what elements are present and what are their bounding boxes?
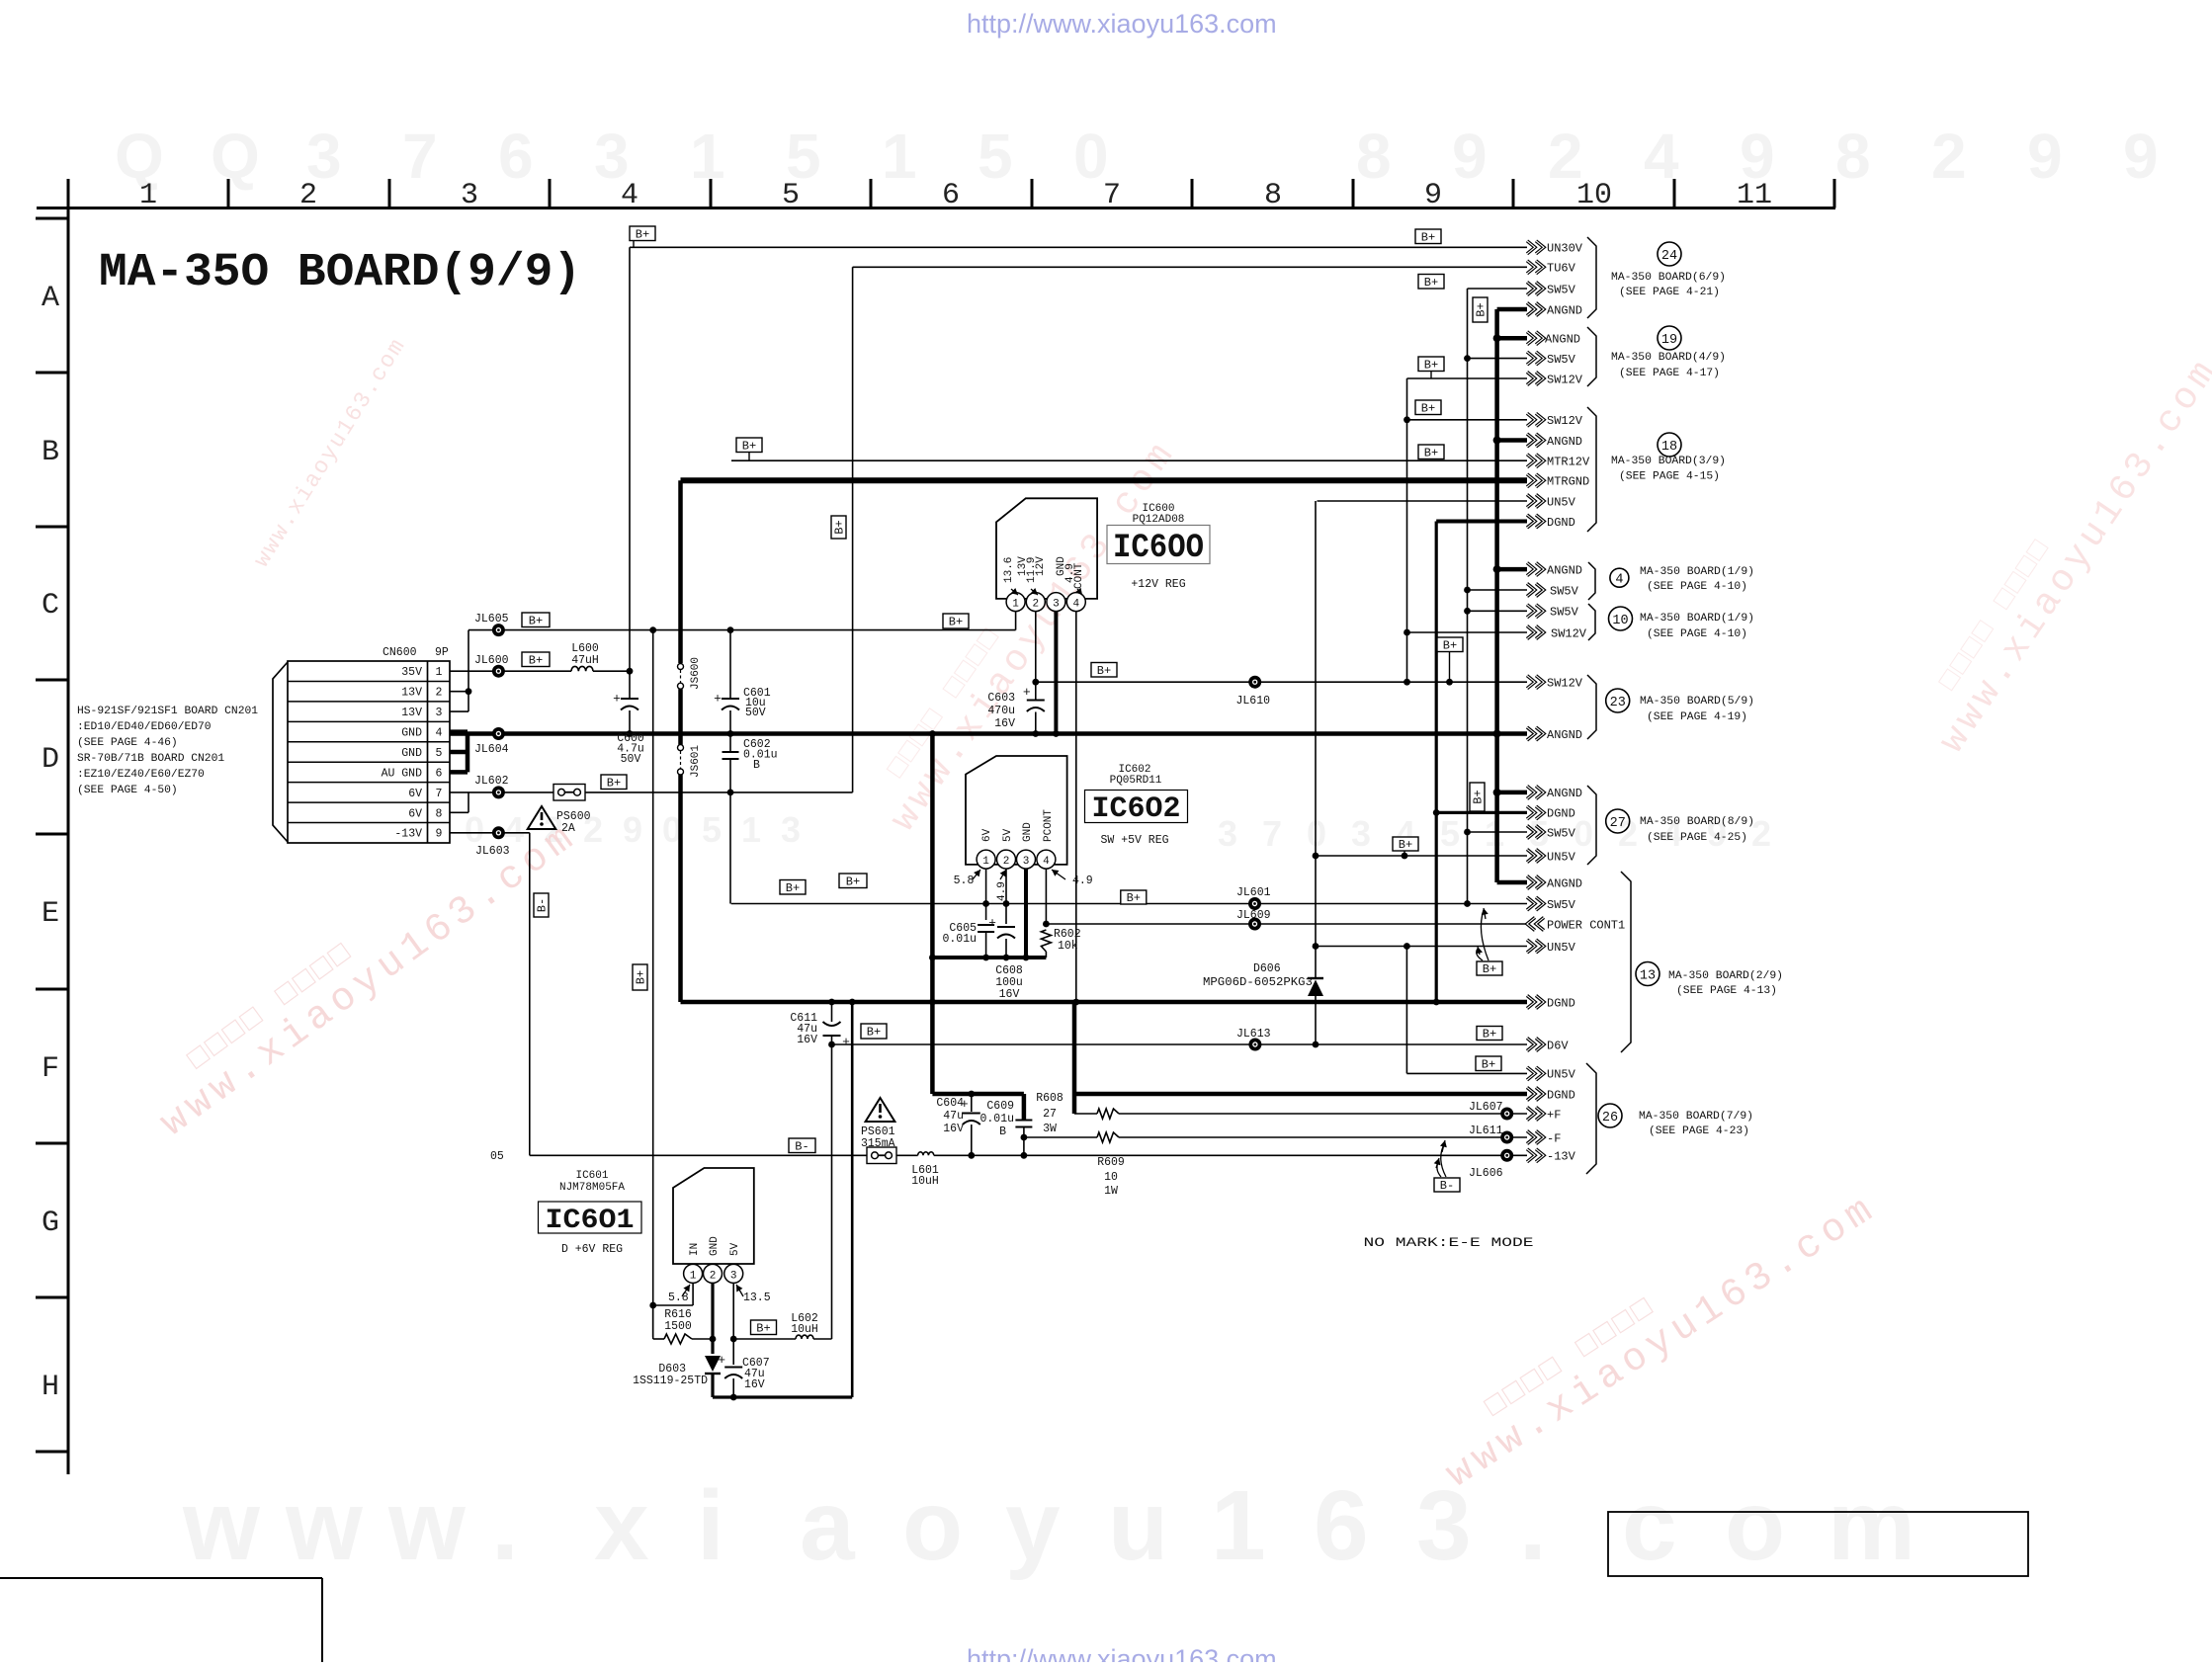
svg-text:ANGND: ANGND	[1547, 728, 1582, 742]
svg-text:B+: B+	[607, 776, 621, 790]
svg-text:MA-350 BOARD(1/9): MA-350 BOARD(1/9)	[1640, 566, 1754, 578]
wire vertical from JL605 line to IC601 input	[652, 630, 654, 1337]
svg-text:9: 9	[2123, 121, 2159, 192]
wire IC602 pin3 GND (thick)	[1024, 869, 1028, 958]
wire POWER CONT1 / JL609 line	[1046, 923, 1527, 925]
svg-text:c: c	[1622, 1470, 1677, 1581]
svg-text:u: u	[1108, 1470, 1168, 1581]
svg-text:D6V: D6V	[1547, 1039, 1569, 1052]
svg-text:12V: 12V	[1035, 556, 1047, 576]
svg-text:19: 19	[1661, 333, 1677, 348]
svg-text:(SEE PAGE 4-25): (SEE PAGE 4-25)	[1647, 832, 1747, 844]
svg-text:C603: C603	[987, 692, 1015, 705]
svg-text:DGND: DGND	[1547, 516, 1575, 530]
wire SW5V 19	[1468, 358, 1528, 360]
label B+ rotated on TU6V trunk	[831, 516, 846, 539]
label B- box on -13V line	[789, 1138, 815, 1153]
svg-text:1: 1	[1211, 1470, 1266, 1581]
svg-text:(SEE PAGE 4-19): (SEE PAGE 4-19)	[1647, 711, 1747, 723]
bracket group 26	[1586, 1063, 1596, 1174]
svg-text:16V: 16V	[744, 1378, 765, 1391]
svg-text:35V: 35V	[401, 666, 422, 679]
svg-text:B: B	[753, 759, 760, 772]
svg-text:http://www.xiaoyu163.com: http://www.xiaoyu163.com	[967, 1644, 1277, 1662]
bottom left box	[0, 1577, 322, 1579]
svg-text:05: 05	[490, 1150, 504, 1163]
label B+ box above JL610 right	[1437, 637, 1463, 652]
svg-text:B+: B+	[1424, 276, 1438, 290]
svg-text:B+: B+	[635, 970, 648, 984]
capacitor C602	[729, 734, 731, 753]
svg-text:+: +	[718, 1353, 725, 1368]
svg-text:6V: 6V	[408, 807, 422, 820]
wire ANGND 23 = GND trunk (thick)	[450, 731, 1527, 736]
svg-text:ANGND: ANGND	[1547, 787, 1582, 800]
svg-text:http://www.xiaoyu163.com: http://www.xiaoyu163.com	[967, 9, 1277, 39]
border row letters A-H	[42, 282, 59, 1404]
bracket group 4	[1588, 562, 1595, 600]
svg-text:9: 9	[2027, 121, 2063, 192]
bracket group 10	[1588, 604, 1595, 640]
node JL600 pad	[492, 665, 505, 678]
svg-text:0.01u: 0.01u	[942, 933, 977, 946]
node SW5V arrow 4	[1527, 584, 1544, 597]
wire IC601 bottom rail (thick)	[713, 1395, 852, 1398]
svg-text:MA-350 BOARD(8/9): MA-350 BOARD(8/9)	[1640, 816, 1754, 828]
svg-text:GND: GND	[401, 747, 422, 760]
svg-text:MPG06D-6052PKG3: MPG06D-6052PKG3	[1203, 976, 1313, 989]
svg-text:JS601: JS601	[690, 745, 702, 778]
node DGND arrow 26	[1527, 1088, 1544, 1101]
node SW5V arrow 13	[1527, 897, 1544, 910]
svg-text:10uH: 10uH	[911, 1175, 939, 1188]
bottom right box	[1608, 1512, 2028, 1576]
svg-text:(SEE PAGE 4-46): (SEE PAGE 4-46)	[77, 737, 178, 749]
wire ANGND trunk vertical (thick)	[1494, 309, 1499, 882]
svg-text:1: 1	[690, 1270, 697, 1282]
node SW12V arrow 18	[1527, 413, 1544, 426]
svg-text:B+: B+	[867, 1026, 881, 1040]
svg-text:315mA: 315mA	[861, 1137, 895, 1150]
wire SW12V 18	[1407, 419, 1528, 421]
border column ticks	[68, 179, 1834, 208]
svg-text:MA-35O BOARD(9/9): MA-35O BOARD(9/9)	[99, 247, 581, 299]
svg-text:2: 2	[1931, 121, 1967, 192]
svg-text:(SEE PAGE 4-15): (SEE PAGE 4-15)	[1619, 471, 1720, 483]
svg-text:ANGND: ANGND	[1545, 333, 1580, 347]
wire +F line	[1119, 1113, 1527, 1115]
svg-text:16V: 16V	[999, 988, 1020, 1001]
border left vertical line	[67, 185, 70, 1474]
wire pins2-3 bracket	[450, 691, 468, 693]
svg-text:6: 6	[1314, 1470, 1369, 1581]
svg-text:SW5V: SW5V	[1547, 898, 1576, 912]
svg-text:UN30V: UN30V	[1547, 242, 1583, 256]
fuse PS600	[553, 785, 585, 801]
wire ANGND 13 (thick)	[1497, 880, 1527, 885]
wire SW5V 13 / JL601 B+ line	[731, 903, 1527, 905]
node POWER CONT1 arrow	[1527, 918, 1544, 931]
svg-text:0: 0	[465, 809, 484, 850]
svg-text:1W: 1W	[1104, 1185, 1118, 1198]
node circled 26	[1598, 1104, 1622, 1127]
wire -F line	[1024, 1136, 1097, 1138]
svg-text:CONT: CONT	[1073, 562, 1085, 589]
svg-text:1500: 1500	[664, 1320, 692, 1333]
wire UN5V vertical (B+/D606 column)	[1315, 501, 1317, 978]
svg-text:13.6: 13.6	[1003, 557, 1015, 583]
svg-text:R608: R608	[1036, 1092, 1063, 1105]
resistor R609	[1097, 1132, 1119, 1142]
svg-text:NO MARK:E-E MODE: NO MARK:E-E MODE	[1364, 1236, 1534, 1250]
svg-text:3: 3	[730, 1270, 737, 1282]
svg-text:GND: GND	[1022, 822, 1034, 842]
node MTRGND arrow	[1527, 474, 1544, 487]
node ANGND arrow 4	[1527, 563, 1544, 576]
capacitor C608	[997, 926, 1015, 928]
svg-text:JL600: JL600	[474, 654, 509, 667]
svg-text:SW5V: SW5V	[1550, 584, 1579, 598]
svg-text:NJM78M05FA: NJM78M05FA	[559, 1182, 625, 1194]
svg-text:2: 2	[710, 1270, 717, 1282]
svg-text:9: 9	[1424, 179, 1442, 212]
svg-text:8: 8	[1835, 121, 1871, 192]
svg-text:1: 1	[1012, 599, 1019, 611]
svg-text:0.01u: 0.01u	[743, 749, 778, 762]
svg-text:5: 5	[702, 809, 722, 850]
node circled 24	[1658, 242, 1681, 266]
capacitor C604	[971, 1094, 973, 1112]
svg-text:B+: B+	[1421, 401, 1435, 415]
node JL602 pad	[492, 786, 505, 798]
node UN5V arrow 13	[1527, 940, 1544, 953]
svg-text:D: D	[42, 743, 59, 777]
svg-text:10k: 10k	[1058, 940, 1078, 953]
label B+ floating mid	[839, 874, 867, 888]
svg-text:B-: B-	[536, 898, 550, 912]
svg-text:26: 26	[1602, 1111, 1618, 1125]
border ruler top line	[37, 207, 1835, 209]
label B+ rotated near IC601 input	[633, 964, 647, 990]
node SW12V arrow 10	[1527, 626, 1544, 639]
svg-text:470u: 470u	[987, 705, 1015, 717]
svg-text:JL603: JL603	[475, 845, 510, 858]
svg-text:IC6OO: IC6OO	[1113, 530, 1204, 567]
svg-text:5.8: 5.8	[954, 875, 975, 887]
svg-text:w: w	[182, 1470, 260, 1581]
node circled 23	[1606, 689, 1630, 712]
svg-text:5: 5	[782, 179, 800, 212]
svg-text:+: +	[988, 916, 996, 931]
node ANGND arrow 19	[1527, 332, 1544, 345]
svg-text:POWER CONT1: POWER CONT1	[1547, 918, 1625, 932]
wire ANGND 19 (thick)	[1497, 336, 1527, 341]
svg-text:2: 2	[1751, 813, 1771, 854]
label B+ box MTR12V right	[1418, 445, 1444, 459]
svg-text:ANGND: ANGND	[1547, 435, 1582, 449]
watermark faint digits middle rows	[465, 809, 1771, 854]
svg-text:IC6O2: IC6O2	[1092, 792, 1181, 826]
svg-text:4: 4	[1615, 573, 1623, 588]
svg-text:B: B	[999, 1125, 1006, 1138]
pin 1 IC601	[684, 1264, 703, 1283]
wire IC600 pin1 to JL605 line	[1015, 612, 1017, 630]
svg-text:ANGND: ANGND	[1547, 563, 1582, 577]
label IC602 big box	[1085, 791, 1188, 823]
svg-text:.: .	[491, 1470, 519, 1581]
svg-text:(SEE PAGE 4-17): (SEE PAGE 4-17)	[1619, 368, 1720, 379]
label IC600 big box	[1107, 526, 1210, 564]
svg-text:HS-921SF/921SF1 BOARD CN201: HS-921SF/921SF1 BOARD CN201	[77, 706, 258, 717]
bracket group 23	[1587, 675, 1596, 739]
svg-text:G: G	[42, 1207, 59, 1240]
node DGND arrow 13	[1527, 996, 1544, 1009]
svg-text:SW5V: SW5V	[1547, 283, 1576, 296]
svg-text:0: 0	[1574, 813, 1593, 854]
svg-text:B-: B-	[1440, 1179, 1454, 1193]
svg-text:7: 7	[436, 788, 443, 800]
svg-text:SW5V: SW5V	[1550, 606, 1579, 620]
fuse PS601	[867, 1147, 896, 1164]
svg-text:B+: B+	[529, 653, 543, 667]
wire SW5V	[1468, 288, 1528, 290]
inductor L602	[733, 1338, 796, 1340]
wire D6V / JL613 line	[832, 1043, 1528, 1045]
svg-text:JL606: JL606	[1469, 1167, 1503, 1180]
op-amp U1 IC600 +12V REG body	[996, 498, 1097, 599]
svg-text:16V: 16V	[943, 1123, 964, 1135]
svg-text:10: 10	[1576, 179, 1612, 212]
label B+ box SW12V 18	[1415, 400, 1441, 415]
label B+ box for UN5V 26	[1476, 1056, 1501, 1071]
wire JS601 down to DGND trunk (thick)	[678, 775, 683, 1002]
watermark faint digits top row	[115, 121, 2159, 192]
bracket group 27	[1587, 786, 1596, 865]
svg-text:JL602: JL602	[474, 775, 509, 788]
svg-text:3: 3	[1053, 599, 1060, 611]
svg-text:B+: B+	[1483, 962, 1496, 976]
svg-text:x: x	[594, 1470, 649, 1581]
svg-text:B+: B+	[1127, 891, 1141, 905]
wire UN5V 26	[1406, 1072, 1527, 1074]
svg-text:MA-350 BOARD(6/9): MA-350 BOARD(6/9)	[1611, 272, 1726, 284]
svg-text:10: 10	[1104, 1171, 1118, 1184]
capacitor C600	[629, 671, 631, 699]
watermark pink diagonal 3 (right edge)	[1907, 333, 2212, 761]
label B+ box JL605	[522, 613, 550, 627]
inductor L600	[571, 666, 593, 671]
bracket left parenthesis of CN600	[273, 662, 288, 842]
wire DGND trunk vertical (thick)	[1435, 522, 1438, 1003]
wire SW5V trunk vertical	[1467, 289, 1469, 904]
op-amp U2 IC602 SW +5V REG body	[966, 756, 1067, 865]
svg-text:1: 1	[139, 179, 157, 212]
wire SW5V 10	[1468, 610, 1528, 612]
svg-text:3: 3	[1218, 813, 1237, 854]
svg-text:UN5V: UN5V	[1547, 495, 1576, 509]
diode D603	[705, 1356, 721, 1372]
wire UN30V (B+ rail)	[630, 246, 1527, 248]
svg-text:3: 3	[436, 707, 443, 719]
svg-text:8: 8	[1264, 179, 1282, 212]
wire SW5V 4	[1468, 589, 1528, 591]
wire GND trunk drop to DGND (thick)	[930, 734, 935, 1095]
svg-text:MTRGND: MTRGND	[1547, 475, 1589, 489]
svg-text:4.9: 4.9	[1072, 875, 1093, 887]
node SW5V arrow 27	[1527, 826, 1544, 839]
svg-text:B+: B+	[1421, 230, 1435, 244]
svg-text:0: 0	[1307, 813, 1326, 854]
svg-text:9P: 9P	[435, 646, 449, 659]
svg-text:B+: B+	[1443, 638, 1457, 652]
svg-text:B+: B+	[1472, 790, 1486, 803]
wire IC602 pin2	[1005, 869, 1007, 924]
svg-text:PCONT: PCONT	[1043, 809, 1055, 842]
svg-text:13.5: 13.5	[743, 1292, 771, 1304]
svg-text:JL605: JL605	[474, 613, 509, 625]
svg-text:(SEE PAGE 4-23): (SEE PAGE 4-23)	[1649, 1125, 1749, 1137]
wire IC601 pin1 to input column	[692, 1283, 694, 1305]
wire UN5V 27	[1316, 855, 1527, 857]
node circled 4	[1610, 568, 1629, 587]
pin 3 IC601	[724, 1264, 743, 1283]
svg-text:C: C	[42, 589, 59, 623]
svg-text:8: 8	[1356, 121, 1392, 192]
svg-text:6V: 6V	[981, 828, 993, 842]
svg-text:27: 27	[1610, 816, 1626, 831]
node DGND arrow 27	[1527, 806, 1544, 819]
svg-text:-13V: -13V	[1547, 1150, 1576, 1164]
svg-text:SW5V: SW5V	[1547, 353, 1576, 367]
wire pin1 35V line	[450, 670, 571, 672]
svg-text:B+: B+	[1483, 1028, 1496, 1042]
capacitor C609	[1022, 1094, 1027, 1120]
svg-text:5: 5	[978, 121, 1013, 192]
svg-text:F: F	[42, 1052, 59, 1086]
svg-text:GND: GND	[709, 1236, 721, 1256]
wire ANGND 27 (thick)	[1497, 791, 1527, 795]
node DGND arrow 18	[1527, 515, 1544, 528]
wire JS600 to JS601 (thick)	[678, 689, 683, 744]
svg-text:PQ05RD11: PQ05RD11	[1110, 775, 1162, 787]
svg-text:y: y	[1005, 1470, 1061, 1581]
svg-text:9: 9	[1452, 121, 1488, 192]
node JL601 pad	[1248, 897, 1261, 910]
svg-text:47u: 47u	[943, 1110, 964, 1123]
svg-text:+: +	[1023, 685, 1031, 700]
svg-text:B+: B+	[949, 616, 963, 629]
svg-text:7: 7	[1103, 179, 1121, 212]
watermark pink diagonal 2 (center)	[859, 416, 1185, 839]
node -F arrow	[1527, 1131, 1544, 1144]
node UN5V arrow 27	[1527, 850, 1544, 863]
svg-text:6: 6	[436, 767, 443, 780]
node JL604 pad	[492, 727, 505, 740]
svg-text:JL611: JL611	[1469, 1125, 1503, 1137]
svg-text:UN5V: UN5V	[1547, 850, 1576, 864]
wire GND bracket pins 4-6 (thick)	[450, 729, 468, 734]
label B+ rotated group 27	[1470, 783, 1485, 811]
wire ANGND 4 (thick)	[1497, 567, 1527, 572]
svg-text:JL613: JL613	[1236, 1028, 1271, 1041]
bracket group 19	[1587, 327, 1596, 386]
label B- with curved arrows group 26	[1434, 1178, 1460, 1192]
wire pins7-8 bracket	[450, 792, 468, 793]
svg-text:D606: D606	[1253, 962, 1281, 975]
svg-text:IC601: IC601	[575, 1170, 608, 1182]
node JL606 pad	[1500, 1149, 1513, 1162]
op-amp U3 IC601 D +6V REG body	[673, 1168, 754, 1264]
node MTR12V arrow	[1527, 455, 1544, 467]
svg-text:50V: 50V	[745, 707, 766, 719]
label B+ box at IC600 pin1 line	[943, 614, 969, 628]
svg-text:JL604: JL604	[474, 743, 509, 756]
node SW12V arrow 23	[1527, 676, 1544, 689]
wire IC602 pin4 to JL609 line	[1045, 869, 1047, 924]
node circled 27	[1606, 809, 1630, 833]
svg-text:1: 1	[741, 809, 761, 850]
svg-text:i: i	[697, 1470, 724, 1581]
wire DGND to R608 (thick)	[1072, 1002, 1077, 1114]
svg-text:B+: B+	[1482, 1057, 1495, 1071]
svg-text:1: 1	[882, 121, 917, 192]
svg-text:+F: +F	[1547, 1108, 1561, 1122]
svg-text:o: o	[1725, 1470, 1785, 1581]
svg-text:MA-350 BOARD(4/9): MA-350 BOARD(4/9)	[1611, 352, 1726, 364]
capacitor C605	[978, 924, 994, 926]
svg-text:1: 1	[436, 666, 443, 679]
svg-text:2: 2	[299, 179, 317, 212]
svg-text:24: 24	[1661, 249, 1677, 264]
node ANGND arrow 27	[1527, 786, 1544, 798]
svg-text:JL601: JL601	[1236, 886, 1271, 899]
svg-text:B+: B+	[756, 1321, 770, 1335]
svg-text:3: 3	[781, 809, 801, 850]
svg-text:B: B	[42, 436, 59, 469]
node circled 10	[1609, 607, 1633, 630]
svg-text:C609: C609	[986, 1100, 1014, 1113]
svg-text:(SEE PAGE 4-10): (SEE PAGE 4-10)	[1647, 581, 1747, 593]
connector CN600 9P outline	[288, 661, 450, 843]
svg-text:DGND: DGND	[1547, 1088, 1575, 1102]
svg-text:(SEE PAGE 4-13): (SEE PAGE 4-13)	[1676, 985, 1777, 997]
svg-text:w: w	[387, 1470, 466, 1581]
svg-text:9: 9	[623, 809, 642, 850]
svg-text:2: 2	[1032, 599, 1039, 611]
svg-text:2: 2	[1003, 856, 1010, 868]
svg-text:B+: B+	[742, 439, 756, 453]
svg-text::ED10/ED40/ED60/ED70: :ED10/ED40/ED60/ED70	[77, 721, 212, 733]
svg-text:3W: 3W	[1043, 1123, 1057, 1135]
label B+ box right of C611	[861, 1024, 887, 1039]
node JL613 pad	[1248, 1039, 1261, 1051]
svg-text:E: E	[42, 897, 59, 931]
bracket group 13	[1621, 872, 1631, 1052]
svg-text:C604: C604	[936, 1097, 964, 1110]
resistor R608	[1097, 1109, 1119, 1119]
wire B- vertical	[529, 833, 531, 1156]
svg-text:+: +	[613, 692, 621, 707]
svg-text:5.8: 5.8	[668, 1292, 689, 1304]
svg-text:A: A	[42, 282, 59, 315]
svg-text:2: 2	[436, 687, 443, 700]
pin 3 IC600	[1047, 593, 1065, 612]
pin 1 IC600	[1006, 593, 1025, 612]
svg-text:MA-350 BOARD(7/9): MA-350 BOARD(7/9)	[1639, 1111, 1753, 1123]
label B+ box for D6V	[1477, 1027, 1502, 1041]
svg-text:UN5V: UN5V	[1547, 941, 1576, 955]
svg-text:SW12V: SW12V	[1551, 626, 1587, 640]
